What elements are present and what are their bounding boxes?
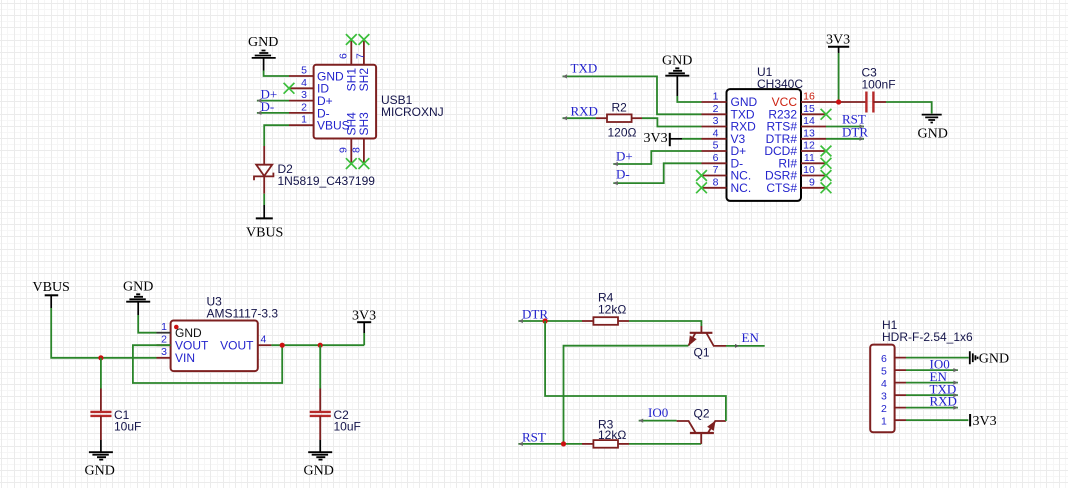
power flag GND (above U1): [662, 54, 692, 97]
svg-text:EN: EN: [742, 330, 760, 345]
wire U3 pin2 loop to pin4: [133, 345, 282, 383]
wire 3V3 to U1 pin4: [682, 138, 702, 140]
wire H1 pin1 to 3V3: [906, 419, 968, 421]
no-connect X pin6: [346, 34, 357, 45]
junction dot RST: [561, 441, 566, 446]
transistor Q1: [688, 326, 726, 360]
power flag GND (right of C3): [918, 115, 948, 142]
no-connect X U1 pin15: [821, 109, 832, 120]
svg-text:3: 3: [161, 346, 167, 358]
capacitor C2 10uF: [310, 389, 361, 441]
wire H1 pin5: [906, 368, 958, 372]
svg-text:7: 7: [713, 164, 719, 176]
wire C3 to GND: [886, 102, 932, 114]
power flag GND (above U3): [123, 280, 153, 316]
svg-text:5: 5: [713, 140, 719, 152]
svg-text:16: 16: [803, 91, 815, 103]
wire 3V3 stem: [363, 333, 365, 345]
svg-text:Q2: Q2: [694, 407, 710, 421]
IC U1 CH340C: [702, 65, 827, 201]
svg-text:120Ω: 120Ω: [608, 126, 637, 140]
svg-text:11: 11: [804, 152, 815, 164]
wire DTR: [826, 137, 864, 141]
svg-text:12: 12: [803, 140, 815, 152]
svg-text:5: 5: [301, 65, 307, 77]
regulator U3 AMS1117-3.3: [157, 295, 279, 372]
junction dot pin4 loop: [280, 343, 285, 348]
resistor R4 12k: [582, 291, 629, 325]
power flag GND (below C2): [304, 440, 334, 479]
svg-text:VBUS: VBUS: [246, 226, 283, 241]
wire H1 pin6 to GND: [906, 357, 969, 359]
no-connect X U1 pin11: [821, 158, 832, 169]
svg-text:12kΩ: 12kΩ: [598, 428, 626, 442]
wire USB1 pin1 to D2: [264, 125, 289, 146]
wire D2 to VBUS: [263, 194, 265, 205]
svg-text:6: 6: [713, 152, 719, 164]
svg-text:IO0: IO0: [648, 405, 668, 420]
svg-text:GND: GND: [123, 280, 153, 295]
no-connect X U1 pin9: [821, 182, 832, 193]
no-connect X pin4: [284, 83, 295, 94]
wire H1 pin3: [906, 393, 958, 397]
svg-text:D+: D+: [616, 149, 633, 164]
svg-text:5: 5: [881, 366, 887, 378]
svg-text:4: 4: [713, 127, 719, 139]
junction dot C1 tap: [98, 355, 103, 360]
svg-text:GND: GND: [918, 127, 948, 142]
power flag VBUS (left): [33, 280, 70, 308]
svg-text:3: 3: [301, 89, 307, 101]
svg-text:2: 2: [881, 403, 887, 415]
svg-text:GND: GND: [85, 464, 115, 479]
wire D+ to pin3: [257, 99, 289, 103]
no-connect X pin7: [359, 34, 370, 45]
power flag 3V3 (left of U1 pin4): [644, 131, 683, 146]
svg-text:R2: R2: [612, 101, 628, 115]
svg-text:1: 1: [881, 416, 887, 428]
junction dot DTR: [543, 318, 548, 323]
no-connect X pin8: [359, 158, 370, 169]
svg-text:2: 2: [713, 103, 719, 115]
wire D- to U1 pin6: [613, 163, 701, 185]
svg-text:4: 4: [261, 334, 267, 346]
svg-text:4: 4: [301, 77, 307, 89]
wire DTR to R4: [518, 319, 582, 323]
resistor R2 120ohm: [596, 101, 642, 140]
svg-text:RXD: RXD: [571, 104, 598, 119]
svg-text:1: 1: [301, 114, 307, 126]
svg-text:6: 6: [338, 53, 350, 59]
power flag GND (below C1): [85, 440, 115, 479]
svg-text:8: 8: [351, 147, 363, 153]
power flag GND (top-left): [248, 35, 278, 71]
junction dot C2 tap: [318, 343, 323, 348]
svg-text:10uF: 10uF: [114, 420, 141, 434]
power flag 3V3 (right of H1): [970, 414, 997, 429]
wire GND to U3 pin1: [138, 315, 156, 333]
svg-text:VIN: VIN: [175, 351, 195, 365]
power flag 3V3 (above U1): [826, 33, 850, 54]
connector H1 HDR-F-2.54_1x6: [870, 318, 973, 432]
power flag GND (right of H1, rotated): [970, 351, 1009, 366]
wire EN from Q1 emitter: [726, 344, 765, 348]
svg-text:SH2: SH2: [357, 68, 371, 92]
svg-text:GND: GND: [304, 464, 334, 479]
svg-text:CH340C: CH340C: [757, 77, 803, 91]
svg-text:1: 1: [161, 321, 167, 333]
wire 3V3 down to VCC net: [838, 53, 840, 102]
capacitor C1 10uF: [90, 389, 141, 441]
svg-text:1: 1: [713, 91, 719, 103]
wire H1 pin2: [906, 406, 958, 410]
wire RXD to R2: [563, 116, 597, 120]
svg-text:2: 2: [301, 101, 307, 113]
svg-text:DTR: DTR: [842, 125, 868, 140]
wire DTR loop to Q2 emitter: [545, 321, 726, 421]
wire D- to pin2: [257, 111, 289, 115]
wire H1 pin4: [906, 381, 958, 385]
svg-text:100nF: 100nF: [862, 78, 896, 92]
wire R3 to Q2 base: [629, 443, 701, 445]
svg-text:10uF: 10uF: [334, 420, 361, 434]
power flag VBUS (below D2): [246, 205, 283, 241]
svg-text:NC.: NC.: [731, 181, 752, 195]
wire D+ to U1 pin5: [613, 151, 701, 166]
wire GND to U1 pin1: [677, 96, 701, 102]
svg-text:GND: GND: [248, 35, 278, 50]
wire down to C2: [319, 345, 321, 388]
power flag 3V3 (right of U3): [352, 309, 376, 334]
junction dot VCC: [836, 99, 841, 104]
svg-text:4: 4: [881, 378, 887, 390]
svg-text:RST: RST: [522, 430, 546, 445]
svg-text:GND: GND: [979, 352, 1009, 367]
wire VBUS to U3 pin3: [51, 308, 156, 358]
svg-text:RXD: RXD: [930, 394, 957, 409]
svg-text:SH3: SH3: [357, 112, 371, 136]
wire R2 to U1 pin3: [642, 118, 702, 126]
svg-text:7: 7: [354, 53, 366, 59]
resistor R3 12k: [582, 418, 629, 448]
svg-text:1N5819_C437199: 1N5819_C437199: [278, 174, 376, 188]
transistor Q2: [677, 407, 726, 444]
wire R4 to Q1 base: [629, 321, 701, 326]
svg-text:9: 9: [338, 147, 350, 153]
svg-text:3: 3: [881, 391, 887, 403]
svg-text:MICROXNJ: MICROXNJ: [381, 105, 444, 119]
svg-text:15: 15: [803, 103, 815, 115]
wire U1 pin16 to C3: [826, 101, 866, 103]
svg-text:8: 8: [713, 176, 719, 188]
svg-text:6: 6: [881, 353, 887, 365]
no-connect X U1 pin7: [696, 170, 707, 181]
svg-text:Q1: Q1: [694, 346, 710, 360]
svg-text:3V3: 3V3: [973, 414, 997, 429]
svg-text:HDR-F-2.54_1x6: HDR-F-2.54_1x6: [882, 330, 973, 344]
svg-text:2: 2: [161, 334, 167, 346]
svg-text:9: 9: [809, 176, 815, 188]
no-connect X U1 pin8: [696, 182, 707, 193]
connector USB1 MICROXNJ: [289, 40, 444, 164]
svg-text:3: 3: [713, 115, 719, 127]
no-connect X U1 pin10: [821, 170, 832, 181]
capacitor C3 100nF: [862, 66, 896, 113]
wire IO0 to Q2: [639, 419, 677, 423]
svg-text:VBUS: VBUS: [33, 280, 70, 295]
svg-text:AMS1117-3.3: AMS1117-3.3: [207, 307, 279, 321]
svg-text:TXD: TXD: [571, 61, 598, 76]
wire RST net to Q1 left leg: [564, 346, 689, 444]
svg-text:14: 14: [803, 115, 815, 127]
no-connect X U1 pin12: [821, 146, 832, 157]
wire TXD to U1 pin2: [563, 74, 702, 114]
svg-text:13: 13: [803, 127, 815, 139]
svg-text:12kΩ: 12kΩ: [598, 303, 626, 317]
wire RST: [826, 124, 864, 128]
no-connect X pin9: [346, 158, 357, 169]
wire GND to USB1 pin5: [264, 71, 289, 77]
svg-text:VOUT: VOUT: [220, 339, 254, 353]
svg-text:GND: GND: [662, 54, 692, 69]
svg-text:D-: D-: [261, 99, 275, 114]
diode D2 schottky: [254, 146, 375, 194]
svg-text:10: 10: [803, 164, 815, 176]
svg-text:CTS#: CTS#: [766, 181, 797, 195]
wire pin4 to 3V3: [271, 344, 364, 346]
svg-text:3V3: 3V3: [826, 33, 850, 48]
wire RST to R3: [518, 442, 582, 446]
wire down to C1: [100, 358, 102, 389]
svg-text:3V3: 3V3: [644, 131, 668, 146]
svg-text:D-: D-: [616, 167, 630, 182]
